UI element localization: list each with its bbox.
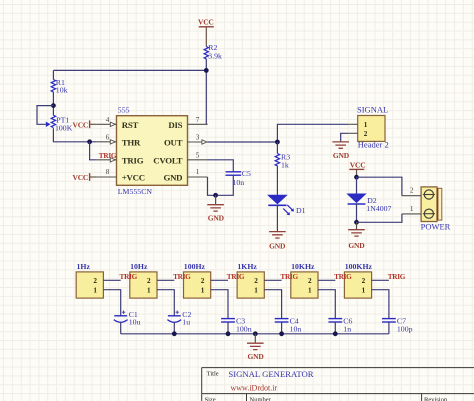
svg-text:CVOLT: CVOLT [153,155,182,165]
svg-text:DIS: DIS [168,120,182,130]
svg-text:Number: Number [250,397,272,401]
switch box 100Hz [184,262,211,298]
power port VCC at R2 [198,18,214,47]
power port VCC at D2 [349,161,365,178]
svg-text:7: 7 [196,116,200,124]
svg-text:GND: GND [248,352,265,361]
svg-text:1: 1 [147,287,151,295]
svg-text:C5: C5 [242,169,251,178]
resistor R2 [204,43,222,60]
wire pin1 of 100KHz to C7 [372,290,389,319]
wire VCC junction to POWER pin 2 [357,177,402,196]
svg-text:10KHz: 10KHz [291,262,315,271]
svg-text:2: 2 [147,277,151,285]
pin 1 GND stub [188,168,208,177]
svg-text:GND: GND [163,173,182,183]
wire R1 bottom to PT1 [52,92,54,115]
svg-text:2: 2 [362,277,366,285]
svg-text:100K: 100K [55,124,73,133]
svg-text:VCC: VCC [198,18,214,27]
svg-text:1k: 1k [281,161,289,170]
svg-text:2: 2 [364,130,368,138]
wire C7 to rail [388,322,390,334]
title block [202,368,474,401]
svg-text:GND: GND [269,242,286,251]
svg-text:POWER: POWER [421,222,451,232]
node junction rail/R2/DIS [204,68,209,73]
ground GND under D2 [348,222,365,250]
svg-text:2: 2 [201,277,205,285]
svg-text:TRIG: TRIG [280,272,298,281]
capacitor C7 [382,316,413,333]
capacitor C6 [328,316,352,333]
node junction rail C6 [333,331,338,336]
op-amp U1 LM555CN body [117,105,188,196]
node junction rail C2 [172,331,177,336]
svg-text:1: 1 [196,168,200,176]
svg-text:10Hz: 10Hz [130,262,148,271]
diode D2 1N4007 [348,194,392,213]
connector POWER terminal block [421,187,451,232]
wire pin1 of 100Hz to C3 [211,290,228,319]
svg-text:1: 1 [93,287,97,295]
svg-text:2: 2 [93,277,97,285]
node junction D2/POWER1 [354,220,359,225]
wire header pin2 to ground [341,133,349,142]
resistor R1 [51,70,67,94]
wire D2 junction to POWER pin 1 [357,214,402,222]
svg-text:SIGNAL: SIGNAL [357,105,388,115]
wire TRIG drop [90,142,97,160]
wire pin1 of 1KHz to C4 [264,290,281,319]
svg-text:1: 1 [254,287,258,295]
connector J1 SIGNAL header [357,105,389,150]
wire C2 to rail [173,322,175,333]
svg-text:3.9k: 3.9k [208,52,222,61]
capacitor C5 [226,169,252,187]
svg-text:TRIG: TRIG [99,151,117,160]
svg-text:GND: GND [348,241,365,250]
wire VCC junction down to D2 [356,177,358,194]
pin 2 stub of header [348,132,358,134]
svg-text:100n: 100n [236,324,252,333]
svg-text:LM555CN: LM555CN [118,187,153,196]
wire pin1 of 10Hz to C2 [157,290,174,316]
svg-text:TRIG: TRIG [120,272,138,281]
pin 5 CVOLT stub [188,151,208,160]
pin 2 stub of POWER [402,187,421,196]
resistor R3 [275,142,290,170]
wire bottom rail [121,333,389,335]
svg-text:TRIG: TRIG [388,272,406,281]
wire OUT net to junction and SIGNAL [208,124,349,142]
svg-text:4: 4 [106,116,110,124]
svg-text:VCC: VCC [73,121,89,130]
svg-text:TRIG: TRIG [227,272,245,281]
potentiometer PT1 [46,115,73,132]
switch box 100KHz [344,262,372,298]
ground GND under D1 [269,232,286,251]
ground GND at bottom rail [247,334,264,361]
wire PT1 bottom to THR [53,128,96,142]
svg-text:RST: RST [122,120,139,130]
svg-text:1: 1 [364,121,368,129]
capacitor C1 [114,310,141,327]
wire D1 to ground [276,205,278,231]
pin 8 +VCC stub [97,168,117,177]
svg-text:10u: 10u [129,318,141,327]
svg-text:+VCC: +VCC [122,173,145,183]
switch box 10KHz [291,262,318,298]
ground GND at header [332,142,349,160]
svg-text:1KHz: 1KHz [237,262,257,271]
LED D1 [268,195,305,215]
wire C6 to rail [334,322,336,334]
wire pin2 of 1Hz to TRIG [103,279,120,281]
node junction rail C3 [226,331,231,336]
wire pin2 of 1KHz to TRIG [264,279,281,281]
svg-text:Title: Title [207,371,219,378]
svg-text:GND: GND [208,214,225,223]
svg-text:10k: 10k [56,85,68,94]
pin 7 DIS stub [188,116,208,124]
wire CVOLT to C5 [208,160,234,172]
wire C4 to rail [281,322,283,334]
svg-text:D1: D1 [296,206,306,215]
power port VCC at pin 4 [73,120,97,129]
wire GND pin to ground junction [208,177,216,195]
svg-text:OUT: OUT [164,138,183,148]
wire pin2 of 10Hz to TRIG [157,279,174,281]
wire pin2 of 100Hz to TRIG [211,279,228,281]
node junction rail GND [253,331,258,336]
svg-text:2: 2 [254,277,258,285]
svg-text:VCC: VCC [73,173,89,182]
wire C3 to rail [227,322,229,334]
ground GND under U1 [207,195,224,222]
wire top rail from R1 to R2/DIS [53,69,206,71]
wire R3 to D1 [276,166,278,195]
svg-text:TRIG: TRIG [334,272,352,281]
wire C1 to rail [120,322,122,333]
pin 1 stub of header [348,123,358,125]
svg-text:1u: 1u [182,318,190,327]
svg-text:Revision: Revision [424,397,448,401]
svg-text:www.iDrdot.ir: www.iDrdot.ir [231,384,278,393]
svg-text:Size: Size [205,397,216,401]
svg-text:VCC: VCC [350,161,366,170]
svg-text:TRIG: TRIG [122,155,144,165]
node junction rail C4 [279,331,284,336]
svg-text:TRIG: TRIG [173,272,191,281]
svg-text:100Hz: 100Hz [184,262,206,271]
node junction VCC/D2/POWER2 [354,175,359,180]
wire pin1 of 10KHz to C6 [318,290,335,319]
power port VCC at pin 8 [73,173,97,182]
svg-text:2: 2 [308,277,312,285]
capacitor C4 [275,316,302,333]
node junction R1/PT1 wiper [51,103,56,108]
svg-text:100p: 100p [397,324,413,333]
wire C5 to ground junction [216,175,234,195]
svg-text:6: 6 [106,134,110,142]
pin 6 THR stub [97,134,117,145]
svg-text:1Hz: 1Hz [77,262,91,271]
svg-text:1: 1 [410,205,414,213]
pin 1 stub of POWER [402,205,421,214]
node junction OUT/R3 [275,140,280,145]
wire pin1 of 1Hz to C1 [103,290,120,316]
svg-text:THR: THR [122,138,141,148]
wire R2 to rail and DIS pin [206,59,207,124]
wire pin2 of 10KHz to TRIG [318,279,335,281]
wire D2 to ground junction [356,204,358,222]
wire wiper loop [37,106,53,125]
svg-text:SIGNAL GENERATOR: SIGNAL GENERATOR [228,369,313,379]
svg-text:1n: 1n [343,324,351,333]
capacitor C2 [167,310,191,327]
svg-text:8: 8 [106,168,110,176]
svg-text:3: 3 [196,134,200,142]
svg-text:10n: 10n [233,178,245,187]
svg-text:Header 2: Header 2 [358,139,389,149]
pin 2 TRIG stub [97,158,117,162]
switch box 1Hz [76,262,103,298]
switch box 10Hz [130,262,157,298]
node junction C5/GND [213,193,218,198]
svg-text:GND: GND [333,151,350,160]
svg-text:5: 5 [196,151,200,159]
node junction THR/TRIG [87,139,92,144]
svg-text:1N4007: 1N4007 [366,204,391,213]
wire pin2 of 100KHz to TRIG [372,279,389,281]
switch box 1KHz [237,262,264,298]
pin 3 OUT stub [188,134,208,145]
svg-text:1: 1 [201,287,205,295]
pin 4 RST stub [97,116,117,127]
capacitor C3 [221,316,252,333]
svg-text:100KHz: 100KHz [345,262,373,271]
svg-text:555: 555 [118,105,130,114]
svg-text:1: 1 [362,287,366,295]
svg-text:2: 2 [410,187,414,195]
svg-text:1: 1 [308,287,312,295]
svg-text:10n: 10n [290,324,302,333]
